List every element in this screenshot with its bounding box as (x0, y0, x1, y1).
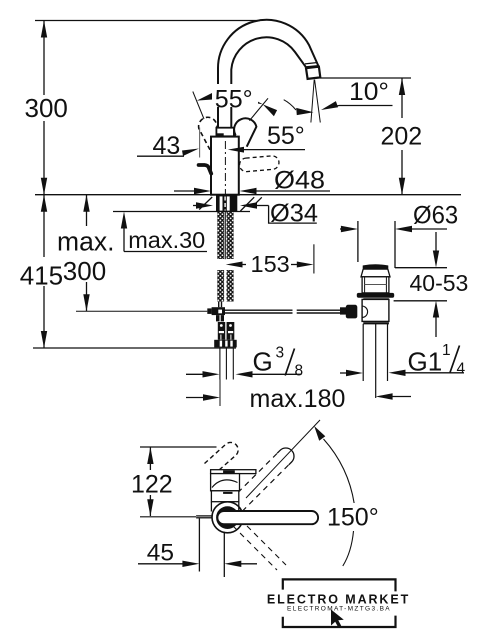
svg-text:300: 300 (25, 93, 68, 123)
dimension 153 leader (226, 244, 314, 273)
deck counter top line (35, 194, 461, 196)
55deg arc 2 segment (284, 100, 296, 110)
threaded shank upper (217, 212, 233, 302)
svg-text:Ø63: Ø63 (413, 202, 458, 230)
hose line left (76, 310, 207, 312)
drain bottom band (363, 322, 389, 324)
top view spout tube (217, 511, 318, 524)
dimension max30 leader (121, 212, 207, 252)
dimension diam63 (340, 221, 447, 268)
spout aerator tip (306, 67, 320, 79)
svg-text:4: 4 (457, 361, 466, 378)
dimension 300 line (41, 21, 47, 195)
spout aerator band (305, 63, 318, 68)
svg-text:55°: 55° (215, 86, 253, 114)
dimension 122 (147, 447, 153, 516)
drain tailpipe (363, 324, 387, 398)
swivel 150 radial line (246, 420, 320, 498)
dimension 40-53 (394, 232, 447, 337)
lower big nut (214, 340, 237, 348)
water stream 10 deg wedge lines (311, 80, 320, 123)
label 150deg (325, 503, 383, 532)
dimension 43 (137, 128, 305, 158)
top view dashed swing lines lower (233, 526, 286, 570)
top view tick line (140, 446, 217, 448)
lever solid up-right position (234, 118, 256, 146)
svg-text:10°: 10° (349, 78, 389, 106)
twin hose connector block (218, 322, 235, 340)
55deg arc 1 arrowhead left (197, 92, 216, 101)
dimension max180 (186, 393, 411, 400)
faucet body (211, 137, 239, 195)
55deg arc 2 arrowhead right (296, 108, 313, 115)
threaded shank lower (217, 270, 233, 302)
top view dashed handle (205, 442, 239, 474)
logo frame (283, 579, 396, 627)
deck hatch right (240, 197, 261, 211)
55deg arc 1 segment (239, 94, 246, 99)
svg-text:40-53: 40-53 (410, 270, 469, 296)
dimension 10deg leader (320, 101, 393, 113)
lever dark bar (216, 133, 223, 136)
lever axis line right 55 (249, 98, 268, 120)
drain seal ring (357, 293, 394, 298)
dimension 202 (320, 78, 411, 195)
label G3/8 (253, 345, 304, 380)
svg-text:Ø34: Ø34 (270, 200, 318, 228)
svg-text:55°: 55° (267, 122, 305, 150)
lever axis line left 55 (193, 92, 204, 120)
hose double line right (225, 310, 341, 313)
label 55deg upper (212, 84, 258, 114)
svg-text:Ø48: Ø48 (274, 167, 325, 195)
label G1 1/4 (408, 342, 466, 378)
spout tube (218, 20, 318, 128)
svg-text:45: 45 (147, 540, 174, 567)
top view lever bar (211, 470, 256, 474)
svg-text:max.30: max.30 (128, 227, 205, 253)
svg-text:ELECTRO MARKET: ELECTRO MARKET (267, 593, 410, 607)
dimension diam34 (193, 202, 317, 223)
top view spout centerline tick (140, 516, 212, 518)
logo cursor icon (331, 610, 344, 628)
top view body (211, 474, 240, 512)
supply hose tails (220, 347, 233, 379)
pop-up rod hook (199, 165, 212, 174)
svg-text:43: 43 (153, 132, 181, 160)
lever dashed horizontal position (239, 155, 280, 172)
drain body (362, 299, 389, 321)
dimension G3/8 leader (186, 371, 301, 377)
svg-text:G: G (253, 347, 273, 377)
swivel 150 arc lower (343, 531, 354, 566)
body centerline (224, 141, 226, 195)
svg-text:8: 8 (295, 363, 304, 380)
svg-text:ELECTROMAT-MZTG3.BA: ELECTROMAT-MZTG3.BA (287, 606, 391, 613)
dimension diam48 (174, 188, 330, 194)
svg-text:max.180: max.180 (250, 385, 346, 413)
deck hatch left (199, 197, 212, 210)
svg-text:3: 3 (276, 345, 285, 362)
faucet collar (216, 128, 234, 137)
swivel 150 arc upper (324, 439, 355, 504)
dimension 45 (138, 519, 257, 578)
svg-text:300: 300 (63, 256, 106, 286)
svg-text:202: 202 (381, 123, 423, 151)
svg-text:122: 122 (131, 471, 173, 499)
top view dashed spout tip pill (277, 448, 294, 465)
svg-text:153: 153 (251, 251, 290, 277)
top view swivel ring bold (219, 509, 237, 527)
dimension G1 1/4 leader (340, 370, 464, 377)
lever dashed left position (199, 117, 219, 150)
55deg bowtie arrow left-pointing (263, 104, 277, 116)
svg-text:G1: G1 (408, 347, 443, 377)
svg-text:150°: 150° (327, 504, 379, 532)
dimension 415 line (33, 195, 236, 348)
shank gap white (216, 259, 235, 270)
faucet lower centerline extension (219, 380, 221, 407)
svg-text:1: 1 (442, 342, 451, 359)
svg-text:max.: max. (57, 227, 114, 257)
55deg bowtie arrow right-pointing (245, 95, 263, 105)
swivel 150 arc arrowhead (314, 426, 325, 441)
mounting nut below deck (216, 195, 237, 211)
deck counter bottom line max30 (113, 211, 250, 213)
hose tee fitting (207, 302, 225, 322)
top view dashed swing lines upper (229, 454, 289, 512)
drain pop-up waste flange top slab (363, 265, 387, 269)
top view swivel ring outer (212, 502, 243, 533)
dimension max300 line (83, 195, 89, 312)
drain flange flare (361, 269, 390, 277)
svg-text:415: 415 (20, 261, 63, 291)
drain side knob (340, 305, 357, 319)
wire top reference tick line (35, 20, 260, 22)
drain neck (362, 277, 389, 293)
